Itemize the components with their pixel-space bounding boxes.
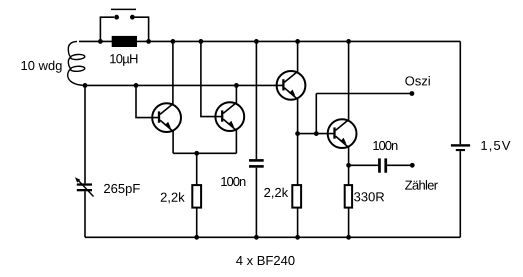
- wire Q1 base tap: [136, 85, 158, 117]
- inductor L1 coil: [68, 41, 85, 85]
- node Oszi tap junction: [314, 131, 319, 136]
- label 10µH: [110, 54, 137, 66]
- wire Q1 collector: [172, 41, 174, 104]
- wire Q4 collector: [348, 41, 350, 120]
- transistor Q1: [152, 103, 181, 132]
- label 100n C3: [373, 141, 397, 150]
- node top rail / coil-switch junction: [98, 39, 103, 44]
- wire right vertical upper: [459, 41, 461, 144]
- node top rail / Q4 collector junction: [346, 39, 351, 44]
- node bottom rail / R1: [194, 235, 199, 240]
- wire Q4 emitter: [348, 147, 350, 165]
- wire bottom rail: [85, 236, 460, 238]
- wire left vertical upper: [84, 85, 86, 183]
- node Zähler terminal: [410, 163, 415, 168]
- node Q3 emitter / R2 junction: [295, 131, 300, 136]
- wire Q1 emitter: [172, 131, 174, 153]
- wire left vertical lower: [84, 191, 86, 237]
- node second rail / Q2 collector: [234, 83, 239, 88]
- label Zähler: [405, 180, 438, 190]
- label Oszi: [405, 76, 430, 86]
- transistor Q2: [215, 102, 244, 131]
- wire C3 to Zähler terminal: [387, 164, 412, 166]
- node bottom rail / R3: [346, 235, 351, 240]
- switch S1: [111, 9, 136, 19]
- label 265pF: [104, 184, 140, 196]
- label 2,2k R2: [264, 188, 288, 199]
- capacitor C3 100n: [378, 158, 387, 172]
- transistor Q4: [328, 119, 357, 148]
- battery B1: [451, 144, 470, 151]
- node second rail / coil bottom: [83, 83, 88, 88]
- node second rail / Q1 base tap: [134, 83, 139, 88]
- node top rail / L2 right junction: [146, 39, 151, 44]
- wire second rail: [85, 84, 284, 86]
- wire switch right leg: [135, 17, 149, 41]
- node bottom rail / R2: [295, 235, 300, 240]
- wire Q3 emitter: [297, 99, 299, 134]
- capacitor C1 variable 265pF: [75, 177, 94, 196]
- node bottom rail / C2: [254, 235, 259, 240]
- wire Oszi line: [316, 93, 412, 95]
- wire emitter to C3: [349, 164, 379, 166]
- node Oszi terminal: [410, 91, 415, 96]
- node top rail / Q3 collector junction: [295, 39, 300, 44]
- wire Q4 base line: [298, 133, 335, 135]
- resistor R3 330R: [345, 165, 352, 237]
- label 1,5V: [481, 141, 510, 152]
- wire Oszi tap vertical: [315, 94, 317, 134]
- node top rail / C2 junction: [254, 39, 259, 44]
- wire switch left leg: [100, 17, 114, 41]
- wire right vertical lower: [459, 151, 461, 237]
- wire Q2 collector: [235, 85, 237, 103]
- wire Q2 emitter: [235, 130, 237, 153]
- capacitor C2 100n: [249, 41, 264, 237]
- resistor R1 2,2k: [192, 153, 201, 237]
- wire Q3 collector: [297, 41, 299, 72]
- node top rail / Q2 base junction: [199, 39, 204, 44]
- resistor R2 2,2k: [292, 134, 301, 238]
- wire emitter rail Q1-Q2: [173, 152, 236, 154]
- label 10 wdg: [21, 61, 61, 73]
- wire top rail: [79, 40, 460, 42]
- label 100n C2: [221, 177, 245, 186]
- node Q4 emitter junction: [346, 163, 351, 168]
- inductor L2: [112, 36, 137, 47]
- label caption 4 x BF240: [236, 256, 294, 265]
- node emitter rail / R1 junction: [194, 151, 199, 156]
- wire Q2 base tap: [201, 41, 221, 116]
- node top rail / Q1 collector junction: [171, 39, 176, 44]
- label 330R: [354, 192, 384, 201]
- label 2,2k R1: [161, 192, 185, 203]
- transistor Q3: [277, 71, 306, 100]
